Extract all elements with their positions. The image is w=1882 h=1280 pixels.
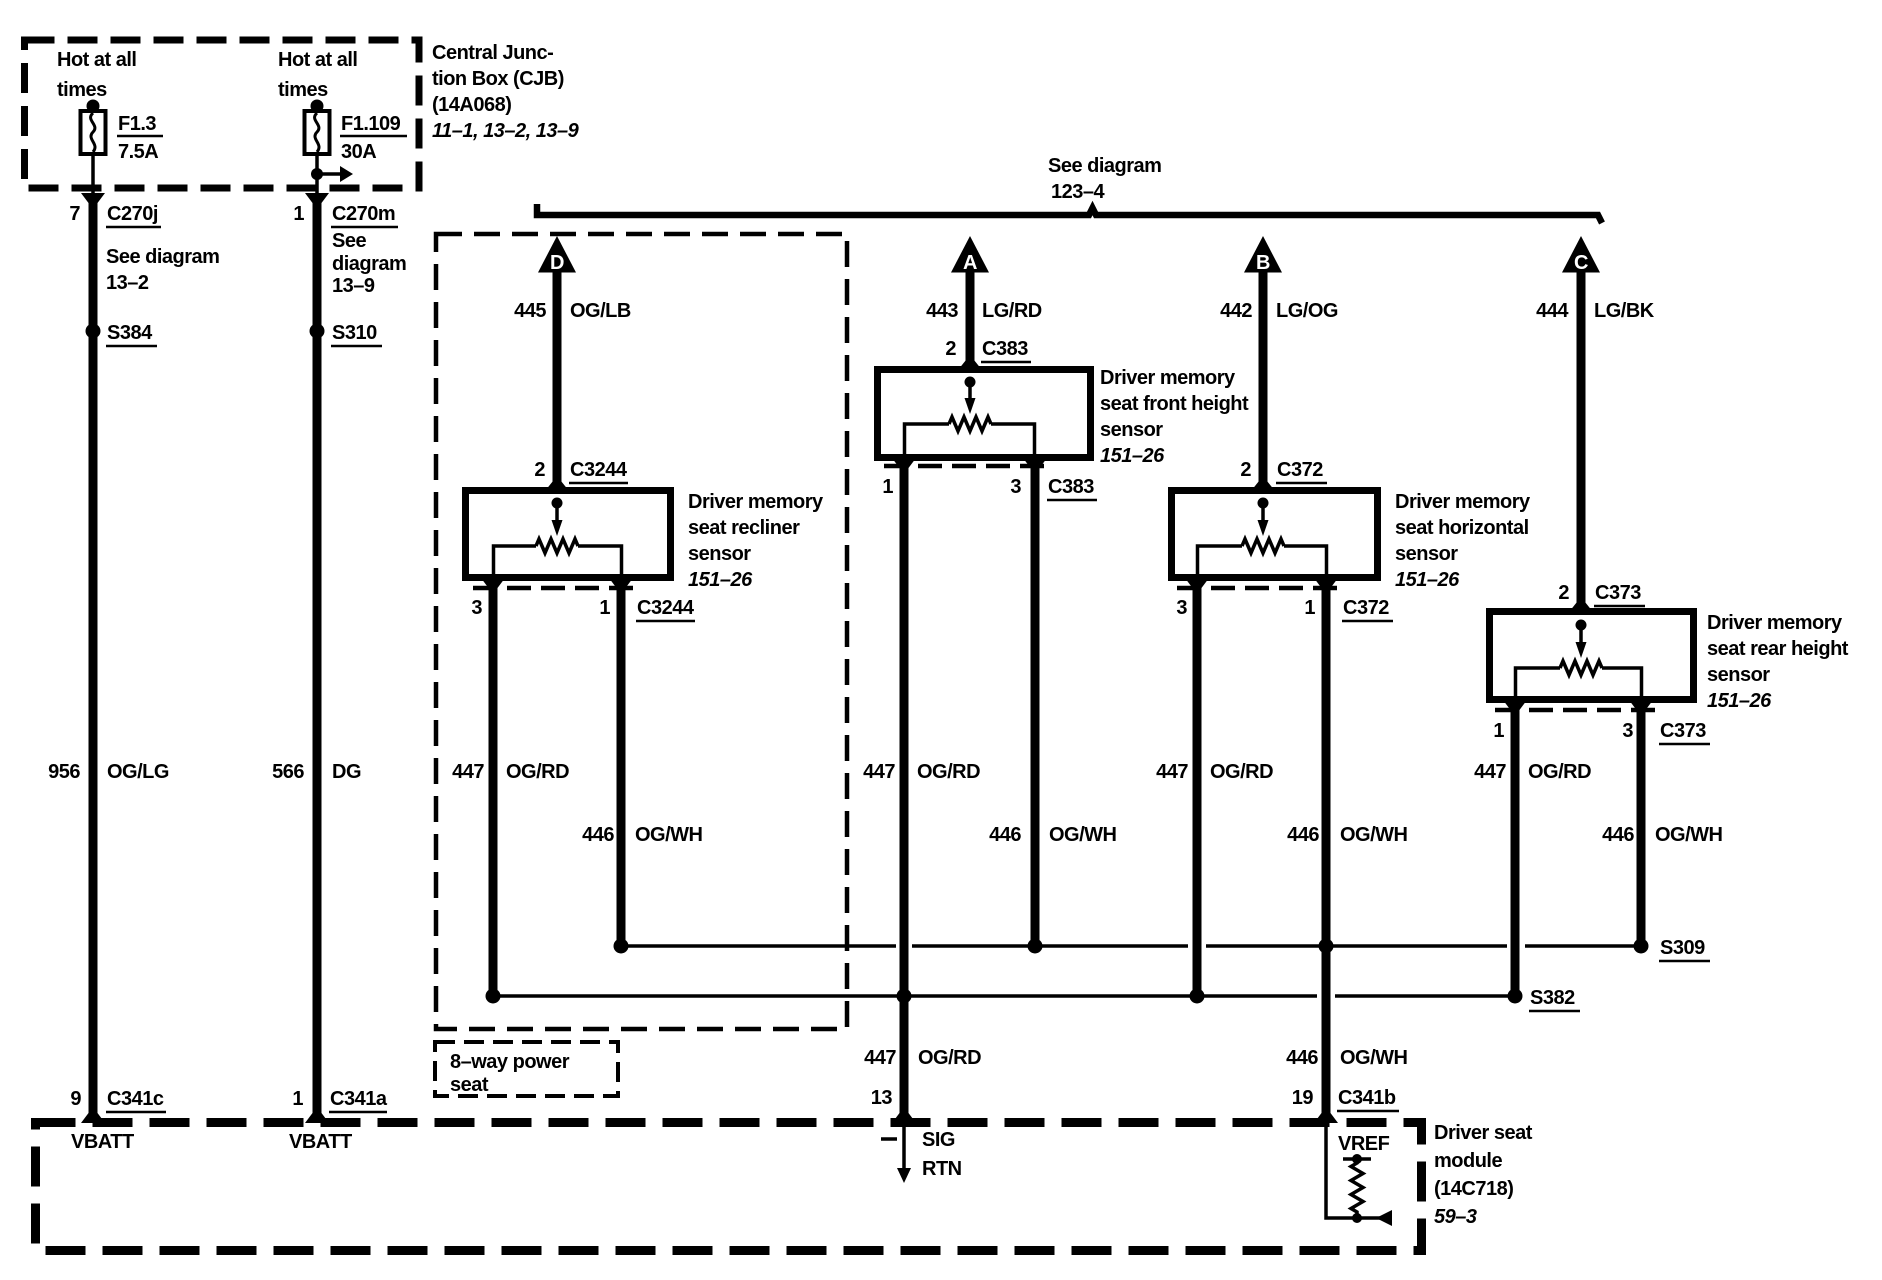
svg-text:OG/WH: OG/WH bbox=[1340, 824, 1408, 846]
svg-text:(14C718): (14C718) bbox=[1434, 1178, 1513, 1200]
front height wiper line and arrow bbox=[965, 382, 976, 414]
horizontal potentiometer tub wiring bbox=[1198, 546, 1327, 577]
label 446 OG/WH (front height) bbox=[989, 824, 1116, 846]
svg-text:7.5A: 7.5A bbox=[118, 141, 158, 163]
svg-text:Driver memory: Driver memory bbox=[1395, 491, 1531, 513]
pin 7 connector C270j label bbox=[69, 203, 161, 227]
svg-text:F1.109: F1.109 bbox=[341, 113, 401, 135]
wire W1 vertical 956 OG/LG bbox=[89, 200, 98, 1120]
8-way power seat dashed boundary box bbox=[436, 234, 847, 1029]
svg-text:446: 446 bbox=[1602, 824, 1634, 846]
svg-text:seat front height: seat front height bbox=[1100, 393, 1249, 415]
connector arrow down rear height pin 1 bbox=[1503, 700, 1527, 716]
svg-text:OG/LG: OG/LG bbox=[107, 761, 169, 783]
node dot S309 at horizontal 446 bbox=[1319, 939, 1334, 954]
svg-text:151–26: 151–26 bbox=[688, 569, 753, 591]
wire W2 vertical 566 DG bbox=[313, 200, 322, 1120]
svg-text:C372: C372 bbox=[1277, 459, 1323, 481]
svg-text:C270m: C270m bbox=[332, 203, 395, 225]
svg-text:C341a: C341a bbox=[330, 1088, 388, 1110]
wire 444 LG/BK vertical bbox=[1577, 271, 1586, 607]
connector dashed line C383 bottom bbox=[884, 464, 1051, 469]
svg-text:1: 1 bbox=[599, 597, 610, 619]
label dash SIG RTN bbox=[881, 1129, 962, 1180]
wire 446 OG/WH front height pin 3 bbox=[1031, 465, 1040, 948]
svg-text:OG/WH: OG/WH bbox=[1049, 824, 1117, 846]
svg-text:Hot at all: Hot at all bbox=[278, 49, 357, 71]
connector triangle D bbox=[538, 236, 576, 274]
label 2 C383 bbox=[945, 338, 1031, 362]
label Hot at all times (right) bbox=[278, 49, 357, 101]
svg-text:1: 1 bbox=[293, 203, 304, 225]
label 1 3 C373 bbox=[1493, 720, 1710, 744]
connector arrow up C373 pin 2 bbox=[1569, 597, 1593, 612]
svg-text:Central Junc-: Central Junc- bbox=[432, 42, 553, 64]
pin 1 connector C270m label bbox=[293, 203, 398, 227]
fuse F1.3 7.5A bbox=[81, 100, 164, 164]
svg-text:C372: C372 bbox=[1343, 597, 1389, 619]
svg-text:2: 2 bbox=[945, 338, 956, 360]
sensor box U3 driver memory seat horizontal sensor bbox=[1172, 491, 1378, 578]
svg-text:times: times bbox=[57, 79, 107, 101]
connector arrow down recliner pin 3 bbox=[481, 578, 505, 594]
label 442 LG/OG bbox=[1220, 300, 1338, 322]
SIG RTN internal wire and arrow bbox=[897, 1127, 911, 1183]
node dot S382 at recliner 447 bbox=[486, 989, 501, 1004]
svg-text:OG/RD: OG/RD bbox=[918, 1047, 981, 1069]
svg-text:C341c: C341c bbox=[107, 1088, 164, 1110]
VREF wiper arrowhead bbox=[1376, 1210, 1392, 1226]
wire 447 OG/RD front height pin 1 bbox=[900, 465, 909, 1120]
wire 446 OG/WH horizontal pin 1 bbox=[1322, 586, 1331, 1120]
svg-text:956: 956 bbox=[48, 761, 80, 783]
Driver seat module dashed box bbox=[36, 1123, 1422, 1251]
svg-text:sensor: sensor bbox=[1100, 419, 1163, 441]
svg-text:VREF: VREF bbox=[1338, 1133, 1390, 1155]
label 1 3 C383 bbox=[882, 476, 1097, 500]
svg-text:seat recliner: seat recliner bbox=[688, 517, 800, 539]
svg-text:151–26: 151–26 bbox=[1100, 445, 1165, 467]
note See diagram 123-4 bbox=[1048, 155, 1161, 203]
label 446 OG/WH (to pin 19) bbox=[1286, 1047, 1407, 1069]
svg-text:OG/RD: OG/RD bbox=[917, 761, 980, 783]
node dot S309 at front height 446 bbox=[1028, 939, 1043, 954]
label 447 OG/RD (recliner) bbox=[452, 761, 569, 783]
VREF wiper wire from pin 19 bbox=[1326, 1127, 1381, 1218]
svg-text:Driver memory: Driver memory bbox=[1707, 612, 1843, 634]
svg-text:1: 1 bbox=[1304, 597, 1315, 619]
note See diagram 13-9 bbox=[332, 230, 406, 297]
label Hot at all times (left) bbox=[57, 49, 136, 101]
svg-text:diagram: diagram bbox=[332, 253, 406, 275]
node: front height wiper junction dot bbox=[965, 377, 976, 388]
svg-text:3: 3 bbox=[1622, 720, 1633, 742]
svg-text:3: 3 bbox=[1176, 597, 1187, 619]
svg-text:D: D bbox=[550, 252, 564, 274]
svg-text:LG/OG: LG/OG bbox=[1276, 300, 1338, 322]
label 3 1 C3244 bbox=[471, 597, 695, 621]
fuse F1.109 30A bbox=[305, 100, 408, 164]
wire 446 OG/WH recliner pin 1 bbox=[617, 586, 626, 948]
svg-text:446: 446 bbox=[1287, 824, 1319, 846]
svg-text:sensor: sensor bbox=[1707, 664, 1770, 686]
sensor box U2 driver memory seat front height sensor bbox=[878, 370, 1091, 458]
label 1 C341a bbox=[292, 1088, 387, 1112]
svg-text:C373: C373 bbox=[1595, 582, 1641, 604]
connector arrow up pin 13 bbox=[892, 1107, 916, 1123]
svg-text:3: 3 bbox=[1010, 476, 1021, 498]
svg-text:19: 19 bbox=[1292, 1087, 1314, 1109]
svg-text:1: 1 bbox=[882, 476, 893, 498]
svg-text:30A: 30A bbox=[341, 141, 376, 163]
connector arrow up C383 pin 2 bbox=[958, 355, 982, 370]
svg-text:S309: S309 bbox=[1660, 937, 1705, 959]
label 956 OG/LG bbox=[48, 761, 169, 783]
label 444 LG/BK bbox=[1536, 300, 1655, 322]
junction dot below F1.109 bbox=[311, 168, 323, 180]
svg-text:Hot at all: Hot at all bbox=[57, 49, 136, 71]
label 447 OG/RD (front height) bbox=[863, 761, 980, 783]
svg-text:447: 447 bbox=[863, 761, 895, 783]
node dot S309 at recliner 446 bbox=[614, 939, 629, 954]
connector triangle B bbox=[1244, 236, 1282, 274]
connector arrow up C341b pin 19 bbox=[1314, 1107, 1338, 1123]
connector arrow down C270j bbox=[81, 193, 105, 209]
note See diagram 13-2 bbox=[106, 246, 219, 294]
svg-text:447: 447 bbox=[1156, 761, 1188, 783]
front height potentiometer tub wiring bbox=[905, 424, 1035, 455]
svg-text:C: C bbox=[1574, 252, 1588, 274]
svg-text:OG/RD: OG/RD bbox=[1528, 761, 1591, 783]
svg-text:9: 9 bbox=[70, 1088, 81, 1110]
label 9 C341c bbox=[70, 1088, 166, 1112]
svg-text:LG/BK: LG/BK bbox=[1594, 300, 1655, 322]
svg-text:Driver memory: Driver memory bbox=[1100, 367, 1236, 389]
svg-text:C3244: C3244 bbox=[570, 459, 628, 481]
svg-text:444: 444 bbox=[1536, 300, 1569, 322]
svg-text:1: 1 bbox=[1493, 720, 1504, 742]
svg-text:C373: C373 bbox=[1660, 720, 1706, 742]
svg-text:59–3: 59–3 bbox=[1434, 1206, 1477, 1228]
svg-text:151–26: 151–26 bbox=[1395, 569, 1460, 591]
svg-text:Driver memory: Driver memory bbox=[688, 491, 824, 513]
wire 447 OG/RD rear height pin 1 bbox=[1511, 708, 1520, 996]
node dot VREF resistor bottom bbox=[1352, 1213, 1362, 1223]
connector arrow up C3244 pin 2 bbox=[545, 476, 569, 491]
svg-text:446: 446 bbox=[582, 824, 614, 846]
svg-text:566: 566 bbox=[272, 761, 304, 783]
label 19 C341b bbox=[1292, 1087, 1399, 1111]
wire fuse F1.3 to CJB exit bbox=[91, 154, 95, 196]
connector arrow down front height pin 3 bbox=[1023, 458, 1047, 474]
connector arrow down front height pin 1 bbox=[892, 458, 916, 474]
bus line to diagram 123-4 bbox=[537, 204, 1602, 223]
node: recliner wiper junction dot bbox=[552, 498, 563, 509]
svg-text:C270j: C270j bbox=[107, 203, 158, 225]
wire fuse F1.109 to CJB exit bbox=[315, 154, 319, 196]
svg-text:F1.3: F1.3 bbox=[118, 113, 156, 135]
label 2 C3244 bbox=[534, 459, 628, 483]
svg-text:tion Box (CJB): tion Box (CJB) bbox=[432, 68, 564, 90]
svg-text:seat horizontal: seat horizontal bbox=[1395, 517, 1529, 539]
front height sensor label bbox=[1100, 367, 1249, 467]
VREF terminal bar and dot bbox=[1343, 1154, 1371, 1164]
resistor: recliner potentiometer zigzag bbox=[536, 539, 578, 553]
horizontal wiper line and arrow bbox=[1258, 503, 1269, 536]
svg-text:13–9: 13–9 bbox=[332, 275, 375, 297]
svg-text:times: times bbox=[278, 79, 328, 101]
connector dashed line C372 bottom bbox=[1177, 586, 1344, 591]
svg-text:seat: seat bbox=[450, 1074, 489, 1096]
label 443 LG/RD bbox=[926, 300, 1042, 322]
svg-text:S384: S384 bbox=[107, 322, 153, 344]
svg-text:443: 443 bbox=[926, 300, 958, 322]
svg-text:VBATT: VBATT bbox=[71, 1131, 134, 1153]
svg-text:C3244: C3244 bbox=[637, 597, 695, 619]
wire 445 OG/LB vertical bbox=[553, 271, 562, 486]
wire 447 OG/RD horizontal pin 3 bbox=[1193, 586, 1202, 998]
svg-text:2: 2 bbox=[534, 459, 545, 481]
CJB title text block bbox=[432, 42, 580, 142]
connector dashed line C373 bottom bbox=[1495, 708, 1662, 713]
label 447 OG/RD (horizontal) bbox=[1156, 761, 1273, 783]
wire splice line S382 horizontal bbox=[493, 994, 1515, 998]
resistor: front height potentiometer zigzag bbox=[949, 417, 991, 431]
rear height sensor label bbox=[1707, 612, 1849, 712]
svg-text:442: 442 bbox=[1220, 300, 1252, 322]
connector arrow down horizontal pin 3 bbox=[1185, 578, 1209, 594]
svg-text:sensor: sensor bbox=[1395, 543, 1458, 565]
Driver seat module label block bbox=[1434, 1122, 1533, 1228]
recliner potentiometer tub wiring bbox=[494, 546, 622, 577]
svg-text:2: 2 bbox=[1558, 582, 1569, 604]
label 2 C373 bbox=[1558, 582, 1645, 606]
label 566 DG bbox=[272, 761, 361, 783]
label 447 OG/RD (rear height) bbox=[1474, 761, 1591, 783]
wire 446 OG/WH rear height pin 3 bbox=[1637, 708, 1646, 946]
svg-text:DG: DG bbox=[332, 761, 361, 783]
node: horizontal wiper junction dot bbox=[1258, 498, 1269, 509]
svg-text:8–way power: 8–way power bbox=[450, 1051, 570, 1073]
svg-text:C341b: C341b bbox=[1338, 1087, 1396, 1109]
connector arrow down horizontal pin 1 bbox=[1314, 578, 1338, 594]
svg-text:seat rear height: seat rear height bbox=[1707, 638, 1849, 660]
node dot S382 at horizontal 447 bbox=[1190, 989, 1205, 1004]
label box 8-way power seat bbox=[435, 1042, 618, 1096]
resistor: VREF potentiometer vertical zigzag bbox=[1351, 1159, 1363, 1216]
svg-text:B: B bbox=[1256, 252, 1270, 274]
svg-text:C383: C383 bbox=[1048, 476, 1094, 498]
connector arrow down rear height pin 3 bbox=[1629, 700, 1653, 716]
svg-text:A: A bbox=[963, 252, 977, 274]
svg-text:447: 447 bbox=[452, 761, 484, 783]
svg-text:module: module bbox=[1434, 1150, 1502, 1172]
sensor box U1 driver memory seat recliner sensor bbox=[466, 491, 671, 578]
svg-text:1: 1 bbox=[292, 1088, 303, 1110]
recliner wiper line and arrow bbox=[552, 503, 563, 536]
svg-text:446: 446 bbox=[989, 824, 1021, 846]
connector arrow down C270m bbox=[305, 193, 329, 209]
sensor box U4 driver memory seat rear height sensor bbox=[1490, 612, 1694, 700]
svg-text:See diagram: See diagram bbox=[106, 246, 219, 268]
svg-text:C383: C383 bbox=[982, 338, 1028, 360]
svg-text:OG/WH: OG/WH bbox=[635, 824, 703, 846]
branch arrow right inside CJB bbox=[317, 166, 353, 182]
label 446 OG/WH (horizontal) bbox=[1287, 824, 1407, 846]
svg-text:447: 447 bbox=[1474, 761, 1506, 783]
svg-text:Driver seat: Driver seat bbox=[1434, 1122, 1533, 1144]
label 3 1 C372 bbox=[1176, 597, 1393, 621]
connector triangle A bbox=[951, 236, 989, 274]
svg-text:SIG: SIG bbox=[922, 1129, 955, 1151]
label 2 C372 bbox=[1240, 459, 1327, 483]
svg-text:OG/RD: OG/RD bbox=[1210, 761, 1273, 783]
svg-text:445: 445 bbox=[514, 300, 546, 322]
wire 443 LG/RD vertical bbox=[966, 271, 975, 363]
recliner sensor label bbox=[688, 491, 824, 591]
svg-text:13–2: 13–2 bbox=[106, 272, 149, 294]
svg-text:See diagram: See diagram bbox=[1048, 155, 1161, 177]
resistor: horizontal potentiometer zigzag bbox=[1242, 539, 1284, 553]
connector triangle C bbox=[1562, 236, 1600, 274]
svg-text:3: 3 bbox=[471, 597, 482, 619]
svg-text:OG/WH: OG/WH bbox=[1655, 824, 1723, 846]
label 445 OG/LB bbox=[514, 300, 631, 322]
connector arrow up C341c pin 9 bbox=[81, 1107, 105, 1123]
connector arrow down recliner pin 1 bbox=[609, 578, 633, 594]
svg-text:LG/RD: LG/RD bbox=[982, 300, 1042, 322]
wire 442 LG/OG vertical bbox=[1259, 271, 1268, 486]
svg-text:123–4: 123–4 bbox=[1051, 181, 1105, 203]
label 446 OG/WH (rear height) bbox=[1602, 824, 1722, 846]
svg-text:RTN: RTN bbox=[922, 1158, 962, 1180]
splice S310 bbox=[310, 322, 383, 346]
svg-text:13: 13 bbox=[871, 1087, 893, 1109]
horizontal sensor label bbox=[1395, 491, 1531, 591]
splice S382 end dot and label bbox=[1508, 987, 1581, 1011]
svg-text:447: 447 bbox=[864, 1047, 896, 1069]
svg-text:7: 7 bbox=[69, 203, 80, 225]
rear height wiper line and arrow bbox=[1576, 625, 1587, 658]
svg-text:sensor: sensor bbox=[688, 543, 751, 565]
wire splice line S309 horizontal bbox=[621, 944, 1641, 948]
label 446 OG/WH (recliner) bbox=[582, 824, 702, 846]
svg-text:11–1, 13–2, 13–9: 11–1, 13–2, 13–9 bbox=[432, 120, 580, 142]
connector arrow up C341a pin 1 bbox=[305, 1107, 329, 1123]
node dot S382 at front height 447 bbox=[897, 989, 912, 1004]
svg-text:151–26: 151–26 bbox=[1707, 690, 1772, 712]
svg-text:OG/LB: OG/LB bbox=[570, 300, 631, 322]
svg-text:(14A068): (14A068) bbox=[432, 94, 511, 116]
connector arrow up C372 pin 2 bbox=[1251, 476, 1275, 491]
label 447 OG/RD (to pin 13) bbox=[864, 1047, 981, 1069]
svg-text:See: See bbox=[332, 230, 366, 252]
svg-text:446: 446 bbox=[1286, 1047, 1318, 1069]
rear height potentiometer tub wiring bbox=[1516, 668, 1642, 699]
node: rear height wiper junction dot bbox=[1576, 620, 1587, 631]
svg-text:2: 2 bbox=[1240, 459, 1251, 481]
resistor: rear height potentiometer zigzag bbox=[1560, 661, 1602, 675]
svg-text:OG/RD: OG/RD bbox=[506, 761, 569, 783]
splice S384 bbox=[86, 322, 158, 346]
wire 447 OG/RD recliner pin 3 bbox=[489, 586, 498, 998]
splice S309 end dot and label bbox=[1634, 937, 1711, 961]
Central Junction Box CJB dashed enclosure bbox=[25, 40, 420, 188]
connector dashed line C3244 bottom bbox=[473, 586, 640, 591]
svg-text:S310: S310 bbox=[332, 322, 377, 344]
svg-text:VBATT: VBATT bbox=[289, 1131, 352, 1153]
svg-text:OG/WH: OG/WH bbox=[1340, 1047, 1408, 1069]
svg-text:S382: S382 bbox=[1530, 987, 1575, 1009]
